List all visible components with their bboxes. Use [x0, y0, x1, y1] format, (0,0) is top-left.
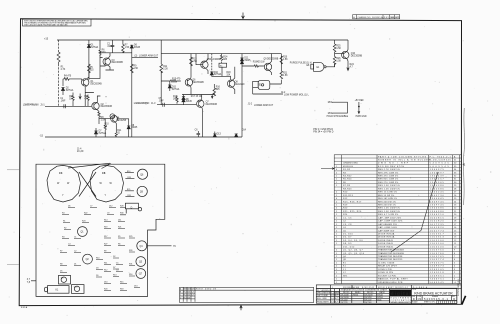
svg-text:1209105: 1209105: [430, 269, 445, 271]
diode D6: [130, 45, 133, 48]
wire: R2 stub: [72, 93, 74, 107]
wire: D7 branch: [95, 128, 97, 137]
digital(DEC) logo: [390, 290, 412, 304]
svg-text:A.NELSON: A.NELSON: [322, 292, 331, 295]
top fold arrow: [242, 13, 245, 19]
signature table text: [317, 290, 340, 304]
resistor R2: [72, 95, 74, 102]
svg-text:Q5: Q5: [139, 262, 143, 264]
svg-text:R27: R27: [104, 243, 107, 245]
wire: left riser of right section: [190, 54, 192, 95]
svg-text:B-DD-5409545: B-DD-5409545: [430, 160, 452, 162]
wire: (2) LOWER ARM OUT stub: [132, 56, 158, 58]
svg-text:1301457: 1301457: [430, 179, 445, 181]
svg-text:1209118: 1209118: [430, 272, 445, 274]
svg-text:PWR GND: PWR GND: [356, 116, 367, 118]
svg-text:DEC2219: DEC2219: [235, 84, 246, 86]
svg-text:470: 470: [177, 78, 182, 80]
svg-text:D5: D5: [60, 270, 62, 272]
svg-text:RES 825 1/4W 1%: RES 825 1/4W 1%: [378, 179, 398, 181]
svg-text:DIODE IN645: DIODE IN645: [378, 240, 394, 242]
wire: right riser of left section: [131, 45, 133, 137]
svg-text:IN754A: IN754A: [91, 46, 99, 49]
svg-text:Q3, Q5, Q9, Q10: Q3, Q5, Q9, Q10: [343, 253, 365, 255]
transistor Q4 with case box: [111, 115, 118, 122]
svg-text:IN645: IN645: [244, 60, 251, 62]
svg-text:003: 003: [187, 297, 190, 299]
svg-text:R6: R6: [118, 243, 120, 245]
logo block frame: [390, 289, 412, 304]
svg-text:D10: D10: [104, 281, 107, 283]
svg-text:DEC3009B: DEC3009B: [112, 62, 124, 64]
svg-text:IN645: IN645: [134, 47, 141, 49]
svg-text:IN645: IN645: [131, 127, 138, 129]
svg-text:Q8: Q8: [61, 278, 64, 280]
svg-text:RES 1.5K 1/4W 5%: RES 1.5K 1/4W 5%: [378, 211, 400, 213]
heatsink pad C3: [47, 165, 81, 202]
svg-text:1309745: 1309745: [430, 201, 445, 203]
svg-text:1300386: 1300386: [430, 208, 445, 210]
wire: R19 to Q9: [242, 65, 264, 67]
svg-text:1M: 1M: [69, 99, 72, 101]
svg-text:41: 41: [463, 164, 466, 167]
svg-text:1001820: 1001820: [430, 227, 445, 229]
resistor R25: [333, 44, 336, 54]
node: input wire LOWER ARM (B) IN: [157, 104, 196, 106]
svg-text:1300375: 1300375: [430, 169, 445, 171]
wire: D1/R5 branch: [88, 40, 90, 78]
layout part reference labels: [60, 171, 137, 290]
transistor Q10: [342, 51, 349, 58]
svg-text:HOLD WTR ENABLE: HOLD WTR ENABLE: [327, 115, 349, 118]
svg-text:IN645: IN645: [377, 299, 381, 301]
svg-text:D3: D3: [96, 267, 98, 269]
resistor R15 horizontal to Q6 base: [161, 80, 181, 82]
layout labels: [27, 171, 177, 292]
svg-text:SOCKET 14 PIN: SOCKET 14 PIN: [378, 275, 396, 277]
svg-text:+: +: [105, 96, 107, 99]
svg-text:4-71: 4-71: [335, 295, 338, 297]
wire: Q7 collector up / emitter down: [201, 95, 204, 138]
svg-text:D14: D14: [242, 130, 247, 132]
svg-text:ORDERING DWG / PCB: ORDERING DWG / PCB: [378, 282, 403, 284]
resistor R26: [333, 54, 336, 67]
svg-text:1.5K: 1.5K: [283, 59, 288, 61]
svg-text:DIODE IN645: DIODE IN645: [378, 246, 394, 248]
svg-text:D3, D4, D5, D6: D3, D4, D5, D6: [343, 240, 363, 242]
wire: R6 top to rail: [99, 40, 101, 58]
wire: D5 branch: [122, 40, 124, 53]
svg-text:LOWER ARM OUT: LOWER ARM OUT: [254, 104, 274, 107]
resistor R20: [280, 56, 283, 64]
svg-text:DEC3009B: DEC3009B: [210, 59, 222, 61]
svg-text:IN751A: IN751A: [172, 88, 180, 91]
svg-text:5009545: 5009545: [430, 282, 445, 284]
svg-text:NUMBER IS INCL A TIN SOLDER: NUMBER IS INCL A TIN SOLDER: [378, 159, 431, 162]
wire: D13 stub: [214, 132, 216, 134]
svg-text:DEC6534B: DEC6534B: [192, 82, 204, 84]
parts-list subtotal row text: [332, 286, 428, 289]
svg-text:(2): (2): [135, 55, 138, 57]
resistor R19: [254, 65, 260, 67]
svg-text:1905575: 1905575: [430, 262, 445, 264]
diode D1: [87, 45, 90, 48]
resistor row marks (layout): [125, 173, 134, 197]
resistor R3: [87, 95, 89, 102]
svg-text:76: 76: [173, 245, 176, 248]
svg-text:C7: C7: [90, 205, 92, 207]
resistor R21: [280, 67, 283, 85]
svg-text:R5: R5: [118, 236, 120, 238]
svg-text:RES 4.7 1/4W 5%: RES 4.7 1/4W 5%: [378, 214, 398, 216]
svg-text:C3, C8: C3, C8: [343, 224, 352, 226]
svg-text:J1-3: J1-3: [151, 103, 156, 105]
svg-text:IC DEC 7400N: IC DEC 7400N: [378, 262, 395, 264]
svg-text:15K: 15K: [226, 74, 231, 76]
wire: Q8 collector/emitter: [233, 67, 235, 94]
svg-text:R21: R21: [118, 226, 121, 228]
wire: gate E1a inputs: [311, 64, 314, 69]
diode D9b: [168, 85, 171, 88]
svg-text:9-7: 9-7: [191, 294, 194, 296]
diode D14 on -15 rail: [235, 134, 238, 137]
svg-text:RES 2.7K 1/4W 5%: RES 2.7K 1/4W 5%: [378, 169, 400, 171]
svg-text:R22: R22: [84, 212, 87, 214]
svg-text:R/HD BRAKE ACTUATOR: R/HD BRAKE ACTUATOR: [414, 291, 453, 295]
svg-text:D12: D12: [109, 205, 112, 207]
conversion chart text: [341, 289, 388, 304]
svg-text:D6: D6: [68, 205, 70, 207]
svg-text:R17: R17: [104, 236, 107, 238]
svg-text:REV: REV: [384, 17, 390, 19]
svg-text:Q2: Q2: [86, 259, 90, 261]
wire: riser from +15 rail: [160, 40, 162, 105]
wire: D9 stub: [183, 97, 185, 105]
svg-text:RES 47K 1/4W 5%: RES 47K 1/4W 5%: [378, 172, 398, 174]
svg-text:D.SMITH: D.SMITH: [322, 301, 330, 303]
conversion chart frame: [340, 289, 390, 304]
resistor R4: [63, 78, 70, 81]
svg-text:.1MF: .1MF: [159, 101, 165, 103]
svg-text:5009545: 5009545: [430, 166, 450, 168]
transistor Q9: [264, 63, 271, 70]
svg-text:R18: R18: [120, 288, 123, 290]
wire: gate E1a output to Q10 base: [326, 64, 335, 67]
svg-text:THE CIRCUITS ARE PROPRIETARY I: THE CIRCUITS ARE PROPRIETARY IN NATURE.: [24, 24, 69, 27]
transistor can Q4 (layout) with leader: [137, 241, 147, 251]
svg-text:D: D: [453, 297, 455, 301]
svg-text:E1: E1: [317, 67, 321, 69]
transistor can Q6 (layout): [137, 169, 147, 179]
svg-text:1105313: 1105313: [430, 237, 445, 239]
title text block: [412, 289, 455, 304]
aux box 2 with transistor (layout): [72, 285, 85, 294]
svg-text:1209351: 1209351: [430, 275, 445, 277]
ground stub with arrow: [211, 95, 213, 99]
resistor R11 on riser: [160, 64, 163, 73]
wire: Q10 emitter with arrow: [347, 59, 349, 71]
svg-text:RES 1M 1/4W 5%: RES 1M 1/4W 5%: [378, 198, 397, 200]
svg-text:825: 825: [216, 89, 221, 91]
revision strip frame: [180, 287, 314, 302]
svg-text:1.5K: 1.5K: [336, 48, 341, 50]
resistor R6: [99, 49, 101, 56]
capacitor C5: [163, 103, 165, 107]
wire: Q5 base/collector: [196, 54, 208, 74]
svg-text:CS: CS: [418, 297, 422, 301]
svg-text:RES 1.5K 1/4W 5%: RES 1.5K 1/4W 5%: [378, 188, 400, 190]
svg-text:R10: R10: [127, 171, 130, 173]
svg-text:R1,R2: R1,R2: [343, 169, 351, 171]
svg-text:1.5K: 1.5K: [125, 47, 130, 49]
+15V rail: [57, 39, 348, 41]
transistor Q7: [197, 100, 204, 107]
svg-text:D9: D9: [96, 275, 98, 277]
svg-text:1001815: 1001815: [430, 217, 445, 219]
svg-text:D-CS-5409545-0-1: D-CS-5409545-0-1: [458, 278, 460, 296]
svg-text:SCALE: SCALE: [412, 301, 418, 304]
-15V rail: [45, 136, 242, 138]
svg-text:TRANSISTOR DEC4258: TRANSISTOR DEC4258: [378, 255, 403, 258]
svg-text:R10: R10: [96, 257, 99, 259]
svg-text:R11: R11: [104, 262, 107, 264]
left margin fold tick 2: [7, 264, 19, 266]
svg-text:RELAY 12V DPDT: RELAY 12V DPDT: [378, 265, 398, 268]
resistor R7: [122, 45, 125, 53]
svg-text:B-MU-9545: B-MU-9545: [362, 287, 374, 289]
svg-text:FOR DRILLING SEE: FOR DRILLING SEE: [343, 287, 359, 289]
wire: Q1 collector to Q3 base: [87, 58, 105, 81]
svg-text:DIODE IN754A: DIODE IN754A: [378, 232, 395, 235]
svg-text:D13: D13: [134, 285, 137, 287]
svg-text:IN751A: IN751A: [66, 89, 74, 92]
svg-text:1.5K: 1.5K: [336, 61, 341, 63]
svg-text:R25: R25: [127, 189, 130, 191]
nand gate E1a: [314, 62, 325, 71]
svg-text:DEC6534B: DEC6534B: [90, 83, 102, 85]
nand gate E1b: [258, 80, 270, 89]
svg-text:DEC3009B: DEC3009B: [351, 55, 363, 57]
svg-text:82: 82: [117, 132, 120, 134]
svg-text:D11, D12: D11, D12: [343, 246, 355, 248]
wire: E1b output to LOW POWER MOL: [253, 84, 283, 94]
svg-text:Y: Y: [62, 194, 64, 197]
svg-text:1300386: 1300386: [430, 211, 445, 213]
diode D12: [240, 61, 243, 64]
bottom fold arrow: [240, 305, 242, 310]
svg-text:.01MF: .01MF: [107, 46, 114, 48]
svg-text:R14: R14: [104, 219, 107, 221]
svg-text:R21, R25, R26: R21, R25, R26: [343, 211, 362, 213]
resistor R5: [88, 64, 91, 73]
svg-text:J.KIRK: J.KIRK: [322, 298, 328, 300]
svg-text:DEC4258: DEC4258: [116, 120, 127, 122]
diode D10: [210, 72, 213, 75]
svg-text:TRANSISTOR & DIODE CONVERSION: TRANSISTOR & DIODE CONVERSION CHART: [341, 289, 388, 292]
svg-text:R3: R3: [62, 236, 64, 238]
svg-text:D13: D13: [217, 134, 222, 136]
parts-list subtotal row: [316, 285, 461, 289]
svg-text:7406751: 7406751: [430, 279, 445, 281]
wire: emitter bus y=94.5: [182, 94, 214, 96]
svg-text:47K: 47K: [84, 99, 89, 101]
svg-text:TRANSISTOR DEC6534B: TRANSISTOR DEC6534B: [378, 249, 404, 252]
svg-text:1300365: 1300365: [430, 182, 445, 184]
svg-text:R12: R12: [104, 269, 107, 271]
svg-text:R20: R20: [104, 288, 107, 290]
svg-text:DEC7400: DEC7400: [365, 302, 372, 304]
parts table row lines: [334, 158, 461, 280]
hand slash mark: [462, 296, 466, 305]
svg-text:R17 15 1W: R17 15 1W: [191, 96, 203, 98]
svg-text:Q1, Q2, Q6, Q7: Q1, Q2, Q6, Q7: [343, 250, 363, 252]
wire: D8 branch: [118, 119, 129, 137]
svg-text:EIA NO: EIA NO: [355, 291, 361, 294]
svg-text:TRANSISTOR DEC2219: TRANSISTOR DEC2219: [378, 258, 403, 261]
svg-text:R23: R23: [82, 220, 85, 222]
wire: D9b stubs: [169, 81, 171, 91]
svg-text:DEC6534B: DEC6534B: [206, 104, 218, 106]
svg-text:C2: C2: [74, 250, 76, 252]
svg-text:C4: C4: [68, 243, 70, 245]
signature table lines: [316, 289, 339, 304]
svg-text:4.7: 4.7: [350, 67, 354, 69]
svg-text:C3: C3: [59, 171, 63, 175]
svg-text:1300386: 1300386: [430, 188, 445, 190]
bracket: HOLD WTR ENABLE: [332, 102, 347, 113]
transistor can Q2 (layout): [83, 254, 93, 264]
svg-text:IN645: IN645: [186, 101, 193, 103]
wire: Q2 collector up: [97, 96, 100, 102]
svg-text:.1MF: .1MF: [60, 100, 66, 102]
svg-text:MOL: MOL: [328, 113, 334, 115]
svg-text:1105745: 1105745: [430, 256, 445, 258]
parts table frame: [334, 155, 461, 284]
svg-text:RES 470 1/4W 5%: RES 470 1/4W 5%: [378, 176, 398, 178]
svg-text:2N6534: 2N6534: [353, 295, 359, 297]
svg-text:825: 825: [90, 70, 95, 72]
svg-text:2C,2D: 2C,2D: [77, 151, 84, 153]
svg-text:P.L. 5409545-0-1: P.L. 5409545-0-1: [317, 290, 331, 292]
ground arrow mid-left: [79, 94, 81, 100]
svg-text:R26: R26: [127, 195, 130, 197]
svg-text:Q4: Q4: [140, 246, 144, 248]
svg-text:MODULE: MODULE: [343, 166, 354, 168]
svg-text:R4: R4: [62, 212, 64, 214]
svg-text:RES 1.5K 1/4W 5%: RES 1.5K 1/4W 5%: [378, 208, 400, 210]
svg-text:RES 453 1W 1%: RES 453 1W 1%: [378, 205, 396, 207]
wire: Q3 emitter down: [106, 66, 115, 70]
svg-text:TRANSISTOR DEC3009B: TRANSISTOR DEC3009B: [378, 252, 404, 255]
capacitor C2: [111, 40, 115, 53]
svg-text:2.7K: 2.7K: [61, 69, 66, 71]
module outline: [36, 164, 165, 296]
svg-text:MODULE ASSY 5409545-0-1: MODULE ASSY 5409545-0-1: [378, 286, 408, 289]
svg-text:W: W: [57, 182, 60, 185]
svg-text:CAP 35MF 35V: CAP 35MF 35V: [378, 229, 395, 232]
title block frame: [411, 288, 457, 303]
svg-text:R7,R9: R7,R9: [343, 185, 351, 187]
left margin fold tick: [7, 169, 19, 171]
svg-text:1300397: 1300397: [430, 172, 445, 174]
title block inner lines: [411, 295, 457, 300]
svg-text:5-7: 5-7: [191, 292, 194, 294]
svg-text:LOWER ARM (B) IN: LOWER ARM (B) IN: [134, 102, 150, 105]
svg-text:CHASSIS BKD: CHASSIS BKD: [343, 162, 359, 165]
svg-text:R8,R23: R8,R23: [343, 188, 352, 190]
svg-text:C9: C9: [107, 212, 109, 214]
svg-text:ECO NO REV ETCH: ECO NO REV ETCH: [378, 166, 405, 168]
svg-text:D2: D2: [113, 256, 115, 258]
transistor can Q1 (layout): [78, 227, 88, 237]
svg-text:R31: R31: [129, 263, 132, 265]
svg-text:C1, C5: C1, C5: [343, 217, 352, 219]
svg-text:001: 001: [187, 292, 190, 294]
wire: Q10 collector to +15 rail: [346, 40, 349, 51]
svg-text:002: 002: [187, 294, 190, 296]
transistor can Q5 (layout): [136, 257, 146, 267]
svg-text:IN751A: IN751A: [99, 132, 107, 135]
svg-text:R28: R28: [127, 177, 130, 179]
svg-text:CAP .1MF 100V 20%: CAP .1MF 100V 20%: [378, 216, 401, 219]
parts table column lines: [342, 155, 460, 284]
svg-text:5409545: 5409545: [430, 163, 450, 165]
leader dash left of table: [321, 168, 334, 170]
svg-text:LOWER ARM (A) IN: LOWER ARM (A) IN: [23, 104, 39, 107]
svg-text:R4,R22: R4,R22: [343, 176, 352, 178]
resistor R10: [104, 125, 106, 130]
wire: pins 3,7 7,8 stub: [31, 280, 36, 282]
svg-text:D1: D1: [74, 263, 76, 265]
svg-text:18: 18: [105, 126, 108, 128]
svg-text:1.5K: 1.5K: [101, 120, 106, 122]
svg-text:DEC2219: DEC2219: [341, 302, 348, 304]
svg-text:1209373: 1209373: [430, 266, 445, 268]
svg-text:IN754A: IN754A: [214, 73, 222, 76]
svg-text:DEC2219: DEC2219: [365, 299, 372, 301]
conversion chart lines: [340, 291, 390, 303]
svg-text:J1-1: J1-1: [40, 105, 45, 107]
wire: mid horizontal bus: [161, 53, 242, 55]
wire: R10 to rail: [104, 130, 106, 137]
svg-text:MOL: MOL: [328, 102, 334, 104]
svg-text:1300386: 1300386: [430, 185, 445, 187]
resistor R12: [176, 96, 178, 104]
svg-text:W: W: [67, 182, 70, 185]
svg-text:CONN 9 PIN: CONN 9 PIN: [378, 269, 392, 271]
svg-text:D1, D10: D1, D10: [343, 233, 354, 235]
wire: Q10 base link: [335, 53, 344, 55]
svg-text:DEC6534B: DEC6534B: [341, 295, 349, 297]
notes box: [23, 19, 92, 26]
svg-text:+15: +15: [44, 37, 49, 40]
wire: R4 to Q1 base: [63, 79, 82, 95]
svg-text:W: W: [110, 182, 113, 185]
diode D16: [182, 97, 185, 100]
svg-text:C8: C8: [102, 171, 106, 175]
svg-text:Q6: Q6: [140, 174, 144, 176]
aux box with transistor (layout): [59, 275, 71, 284]
svg-text:PIN 14 = +5V PIN D: PIN 14 = +5V PIN D: [313, 132, 334, 134]
resistor R1: [57, 52, 60, 64]
svg-text:R25: R25: [129, 236, 132, 238]
svg-text:R9: R9: [104, 250, 106, 252]
capacitor C6 on -15 rail: [197, 131, 201, 137]
node +5V REF stub: [358, 102, 360, 114]
diode D8: [127, 126, 130, 129]
wire: Q2 emitter chain to Q4: [97, 110, 110, 125]
svg-text:Y: Y: [105, 194, 107, 197]
